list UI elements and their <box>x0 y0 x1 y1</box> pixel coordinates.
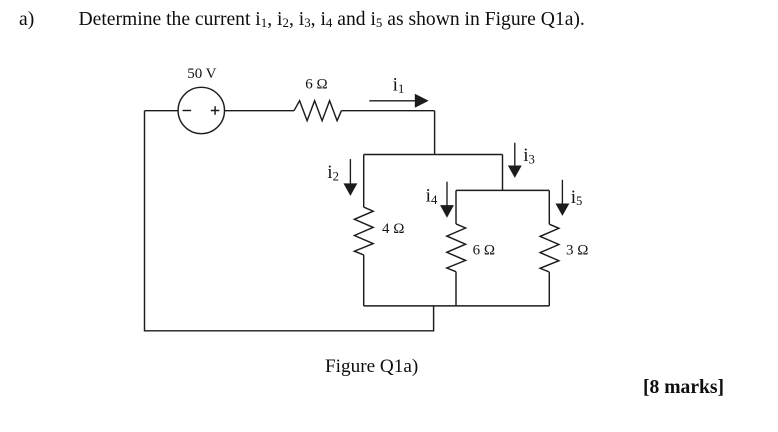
question text <box>79 9 585 31</box>
current arrow i5 <box>557 180 569 215</box>
svg-text:4 Ω: 4 Ω <box>382 221 404 237</box>
wire box2 right lower <box>548 272 550 306</box>
wire box1 left lower <box>363 255 365 306</box>
current arrow i3 <box>509 143 521 177</box>
figure caption Figure Q1a) <box>325 356 418 378</box>
current arrow i2 <box>345 159 357 194</box>
question label a) <box>19 9 34 31</box>
wire top-left segment <box>145 110 179 112</box>
marks label [8 marks] <box>643 377 724 399</box>
wire box1 left upper <box>363 155 365 208</box>
svg-text:6 Ω: 6 Ω <box>473 243 495 259</box>
resistor 6ohm vertical <box>447 224 466 272</box>
svg-text:50 V: 50 V <box>187 66 216 82</box>
wire box2 top <box>456 189 549 191</box>
resistor 3ohm vertical <box>540 224 559 272</box>
voltage source minus terminal <box>183 110 192 112</box>
wire box2 right upper <box>548 190 550 224</box>
svg-text:i5: i5 <box>571 187 583 208</box>
current arrow i1 <box>369 95 427 107</box>
wire box1 top <box>364 154 503 156</box>
resistor 4ohm vertical <box>354 207 373 255</box>
wire box2 left upper <box>455 190 457 224</box>
wire from source to resistor <box>225 110 295 112</box>
voltage source plus terminal <box>211 106 220 115</box>
voltage source V1 50V circle <box>178 87 224 133</box>
wire outer loop (left side and bottom) <box>145 111 434 331</box>
wire resistor to right corner <box>341 110 434 112</box>
svg-text:6 Ω: 6 Ω <box>305 77 327 93</box>
svg-text:i3: i3 <box>523 145 535 166</box>
svg-text:i4: i4 <box>426 186 438 207</box>
wire bottom of boxes <box>364 305 550 307</box>
wire right vertical drop to node <box>434 111 436 155</box>
current arrow i4 <box>441 182 453 217</box>
svg-text:i2: i2 <box>327 162 339 183</box>
wire box2 left lower <box>455 272 457 306</box>
resistor 6ohm horizontal <box>294 101 341 121</box>
svg-text:3 Ω: 3 Ω <box>566 243 588 259</box>
wire box1 right vertical <box>502 155 504 191</box>
svg-text:i1: i1 <box>393 75 405 96</box>
